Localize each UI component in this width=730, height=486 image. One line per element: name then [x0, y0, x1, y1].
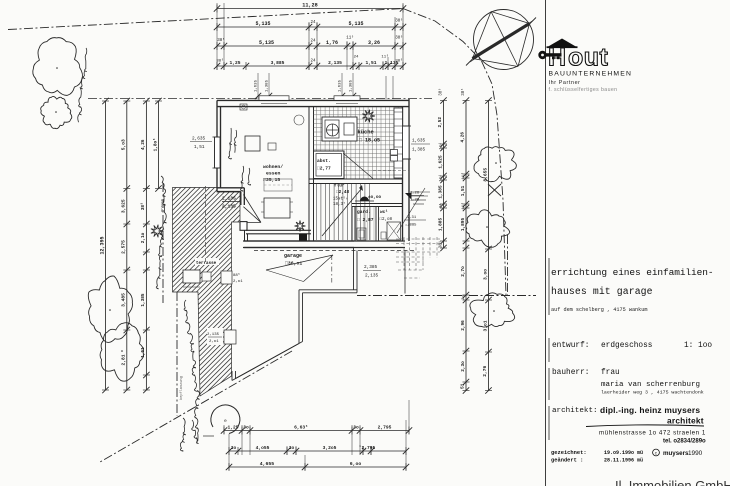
svg-text:□2,77: □2,77	[317, 166, 331, 172]
patio end step	[231, 371, 233, 381]
dimension chain left L1 (12,395)	[105, 101, 107, 390]
living armchair squiggle	[241, 166, 244, 191]
patio south edge (horizontal double)	[299, 289, 357, 291]
svg-text:bauherr:: bauherr:	[552, 369, 589, 377]
north wall window west (roller box)	[259, 96, 289, 101]
svg-text:1,385: 1,385	[438, 185, 443, 199]
dimension chain top row 3 (38 5,135 24 1,76 11 3,26)	[217, 45, 403, 47]
svg-text:gezeichnet:: gezeichnet:	[551, 450, 587, 456]
svg-text:19.o9.199o mü: 19.o9.199o mü	[604, 450, 643, 456]
dimension chain left L2 (5,03 3,625 2,575 ...)	[126, 101, 128, 390]
yard dims 2,385/2,135	[363, 270, 381, 272]
svg-text:1,635: 1,635	[339, 79, 343, 92]
svg-text:5,135: 5,135	[348, 21, 363, 27]
kitchen island counter	[322, 117, 357, 141]
svg-text:□2,48: □2,48	[336, 190, 350, 195]
svg-text:essen: essen	[266, 172, 281, 177]
yard east fence line	[404, 251, 406, 294]
shrub star left of terrace	[151, 225, 164, 238]
east annex dims (4,31/4,885)	[404, 219, 426, 221]
patio diagonal edge (double)	[232, 344, 299, 381]
dimension chain right R2 (4,26 1,51 1,895 2,70 30 2,96 2,30)	[465, 101, 467, 391]
svg-text:2,135: 2,135	[365, 274, 379, 279]
boundary line left vertical (dash-dot)	[162, 183, 164, 303]
door width labels 2,135/2,135	[222, 201, 240, 203]
tree top-left large	[33, 38, 83, 96]
extension lines top block	[216, 3, 218, 70]
svg-text:1,385: 1,385	[141, 293, 146, 307]
bush right middle	[466, 210, 510, 247]
svg-text:architekt:: architekt:	[552, 407, 598, 415]
stair run arrow	[322, 188, 362, 236]
svg-text:6,oo: 6,oo	[350, 461, 362, 467]
svg-text:out: out	[568, 44, 609, 72]
entrance door black triangle	[405, 193, 412, 200]
kitchen floor tile grid	[314, 107, 403, 179]
svg-text:1: 1oo: 1: 1oo	[684, 342, 712, 350]
wc shower box	[387, 222, 401, 240]
svg-text:1,25: 1,25	[229, 60, 240, 66]
boundary vertical dash-dot east of R3	[507, 235, 509, 296]
svg-text:maria van scherrenburg: maria van scherrenburg	[601, 381, 700, 389]
svg-text:28.11.1996 mü: 28.11.1996 mü	[604, 457, 643, 463]
kitchen/flur dividing wall (horizontal)	[309, 178, 403, 180]
southwest wall turn east	[217, 187, 244, 189]
west exterior wall	[216, 100, 218, 191]
svg-text:2,81: 2,81	[121, 354, 127, 365]
svg-text:1,885: 1,885	[438, 218, 443, 232]
svg-text:6,63⁵: 6,63⁵	[294, 425, 308, 431]
entwurf row	[548, 338, 550, 362]
dining table	[264, 198, 290, 218]
svg-text:4,26: 4,26	[461, 132, 466, 143]
svg-text:1,8o⁵: 1,8o⁵	[153, 138, 158, 152]
dimension chain left L3 (4,26 2,10 ...)	[145, 101, 147, 390]
pillar at terrace corner	[240, 222, 247, 231]
dimension chain right R3 (8,655 3,00 3,01 2,76)	[488, 101, 490, 391]
svg-text:12,395: 12,395	[99, 236, 105, 254]
svg-text:ɡard.: ɡard.	[357, 209, 371, 215]
svg-text:terrasse: terrasse	[196, 262, 217, 266]
kitchen stove circle	[327, 124, 339, 136]
compass rose circle	[474, 10, 534, 70]
svg-text:3,625: 3,625	[121, 199, 127, 213]
tree top-left small	[41, 96, 72, 128]
svg-text:1990: 1990	[688, 450, 703, 457]
logo key icon	[538, 51, 546, 59]
entrance level marker half-disc	[360, 197, 369, 202]
svg-text:2,76: 2,76	[482, 365, 488, 376]
hatch divider dashed vertical	[205, 186, 207, 262]
garage north wall	[243, 240, 354, 242]
dimension chain bottom row B (30 4,055 30 3,205 2,795)	[229, 450, 406, 452]
wc west wall	[375, 207, 377, 242]
small window symbol top-left corner	[240, 104, 247, 110]
bush squiggles bottom-left of e-tree	[180, 418, 185, 451]
svg-text:24: 24	[310, 40, 316, 44]
compass star lines	[491, 12, 530, 24]
svg-text:˜2,795: ˜2,795	[359, 445, 376, 451]
svg-text:Ihr Partner: Ihr Partner	[549, 80, 581, 86]
north exterior wall	[217, 99, 409, 101]
surveyor X mark right	[488, 184, 501, 196]
tree left-middle upper	[88, 276, 132, 342]
svg-text:4,o55: 4,o55	[256, 445, 270, 451]
terrasse label	[195, 258, 219, 265]
svg-text:2,o1: 2,o1	[233, 280, 243, 284]
abst door swing diagonal	[343, 153, 373, 179]
svg-text:3,485: 3,485	[121, 293, 127, 307]
abst room walls	[314, 151, 345, 179]
east exterior wall lower	[408, 183, 410, 241]
svg-text:2,635: 2,635	[192, 137, 206, 142]
svg-text:1,635: 1,635	[255, 79, 259, 92]
west wall window (2,635/1,51)	[215, 137, 221, 168]
flur-east diagonal to steps	[397, 188, 425, 233]
logo Hout outlined letters	[548, 44, 609, 72]
svg-text:1,51: 1,51	[461, 185, 466, 196]
svg-text:dipl.-ing. heinz muysers: dipl.-ing. heinz muysers	[600, 405, 700, 415]
svg-text:3o: 3o	[243, 425, 249, 431]
svg-text:garage: garage	[284, 253, 302, 259]
tree bottom-center with e label	[211, 405, 240, 434]
planting strip squiggle along terrace	[156, 176, 166, 289]
svg-text:BAUUNTERNEHMEN: BAUUNTERNEHMEN	[549, 71, 633, 78]
gard room west wall	[351, 207, 353, 242]
boundary line top (dash-dot)	[8, 9, 403, 30]
south exterior wall	[244, 240, 405, 242]
svg-text:1,76: 1,76	[326, 40, 338, 46]
boundary line right curve (dash-dot)	[403, 9, 506, 296]
title text errichtung	[548, 258, 550, 315]
svg-text:1,385: 1,385	[412, 148, 426, 153]
svg-text:3,26: 3,26	[368, 40, 380, 46]
svg-text:2,7o: 2,7o	[461, 266, 466, 277]
svg-text:24: 24	[354, 56, 359, 60]
svg-text:2,3o: 2,3o	[461, 361, 466, 372]
kitchen appliance boxes	[391, 150, 398, 156]
svg-text:Il. Immobilien GmbH: Il. Immobilien GmbH	[615, 478, 730, 486]
svg-text:8,655: 8,655	[482, 168, 488, 182]
svg-text:51: 51	[461, 383, 466, 389]
svg-text:1,625: 1,625	[438, 155, 443, 169]
living room sideboard	[245, 136, 260, 151]
bush right lower	[470, 293, 515, 327]
svg-text:H: H	[548, 44, 567, 72]
terrace furniture table	[183, 270, 200, 283]
svg-text:2,385: 2,385	[364, 265, 378, 270]
svg-text:5,135: 5,135	[255, 21, 270, 27]
terrace door swing wedge	[243, 195, 261, 223]
svg-text:38⁵: 38⁵	[141, 202, 146, 210]
svg-text:24: 24	[310, 21, 316, 25]
svg-text:e: e	[224, 419, 227, 424]
patio west edge (vertical double)	[298, 290, 300, 344]
svg-text:5,135: 5,135	[259, 40, 274, 46]
svg-text:wc¹: wc¹	[380, 210, 388, 215]
entrance outside steps	[411, 191, 430, 193]
svg-text:erdgeschoss: erdgeschoss	[601, 342, 653, 350]
chimney black box on south wall	[299, 234, 307, 241]
bush squiggle right of top-left trees	[78, 48, 87, 122]
svg-text:bepflanzung: bepflanzung	[179, 376, 184, 400]
living sideboard small	[268, 143, 276, 150]
svg-text:3,o1: 3,o1	[482, 320, 488, 331]
SE dashed dimension web	[396, 237, 440, 278]
svg-text:1,51: 1,51	[365, 60, 376, 66]
east annex dims (0,26/1,26)	[409, 195, 424, 197]
central spine wall (vertical)	[308, 107, 310, 242]
terrace glass front of living room	[246, 229, 311, 231]
dimension chain bottom row C (4,655 6,00)	[229, 466, 406, 468]
svg-text:c: c	[655, 452, 658, 457]
dimension chain top row 2 (5,135 24 5,135)	[217, 26, 403, 28]
svg-text:1,385: 1,385	[266, 79, 270, 92]
svg-text:5,o3: 5,o3	[121, 139, 127, 150]
svg-text:3o: 3o	[353, 425, 359, 431]
svg-text:hauses mit garage: hauses mit garage	[551, 286, 653, 297]
svg-text:3,oo: 3,oo	[482, 269, 488, 280]
svg-text:4,655: 4,655	[260, 461, 275, 467]
svg-text:3,885: 3,885	[271, 60, 285, 66]
svg-text:11,28: 11,28	[302, 3, 318, 9]
svg-text:4,26: 4,26	[141, 139, 146, 150]
east wall window (1,635/1,385)	[403, 126, 410, 159]
wc sink	[381, 232, 386, 239]
svg-text:tel. o2834/289o: tel. o2834/289o	[663, 439, 706, 445]
compass north needle thick	[473, 24, 530, 59]
svg-text:θ,26: θ,26	[410, 191, 420, 196]
svg-text:2,795: 2,795	[378, 425, 392, 431]
svg-text:muysers: muysers	[663, 450, 689, 457]
dimension chain top row 1 (11,28)	[217, 8, 403, 10]
svg-text:mühlenstrasse 1o 472 straele: mühlenstrasse 1o 472 straelen 1	[599, 430, 706, 437]
gard/wc north wall	[352, 203, 403, 205]
svg-text:1,26: 1,26	[410, 199, 420, 203]
svg-text:ₐ,885: ₐ,885	[405, 224, 417, 228]
compass end ticks	[466, 58, 474, 66]
architekt row	[548, 406, 550, 440]
svg-text:ₐ,31: ₐ,31	[407, 216, 417, 220]
svg-text:geändert :: geändert :	[551, 457, 583, 463]
svg-text:2,1o: 2,1o	[141, 232, 146, 243]
pantry dashed line	[373, 170, 409, 172]
svg-text:flur: flur	[334, 184, 345, 189]
pillar to south wall connection	[244, 230, 246, 241]
architekt underline	[586, 425, 704, 427]
door swing arc kitchen	[294, 115, 304, 125]
extension lines bottom block	[223, 425, 225, 434]
svg-text:2,96: 2,96	[461, 320, 466, 331]
svg-text:f. schlüsselfertiges bauen: f. schlüsselfertiges bauen	[549, 87, 618, 93]
svg-text:1,635: 1,635	[412, 139, 426, 144]
terrace steps lower with labels 2,135/2,01	[224, 330, 236, 344]
svg-text:24: 24	[310, 60, 316, 64]
living room plant squiggle west	[228, 128, 231, 159]
tree left-middle lower	[100, 323, 143, 381]
kitchen plant (spiky)	[362, 110, 375, 123]
west window dim labels 2,635/1,51	[190, 141, 212, 143]
kitchen east counter band	[394, 108, 403, 178]
svg-text:frau: frau	[601, 369, 620, 377]
svg-text:3o: 3o	[231, 445, 237, 451]
garage door swing lines	[266, 255, 333, 270]
svg-text:2,135: 2,135	[328, 60, 342, 66]
east exterior wall upper	[408, 99, 410, 183]
svg-text:3o: 3o	[462, 295, 466, 300]
svg-text:entwurf:: entwurf:	[552, 342, 589, 350]
svg-text:1,385: 1,385	[350, 79, 354, 92]
logo house roof	[547, 39, 578, 48]
dimension chain top row 4 (1,25 3,885 24 2,135 24 1,51 11 1,135)	[217, 65, 403, 67]
boundary line bottom-left diagonal (dash-dot)	[100, 351, 292, 462]
copyright muysers 1990	[653, 449, 660, 456]
north wall window east (roller box)	[334, 96, 360, 101]
svg-text:wohnen/: wohnen/	[263, 164, 283, 170]
gard fixtures	[357, 228, 366, 240]
boundary line horizontal south of garage (dash-dot)	[357, 295, 536, 297]
garage roof overhang dashed	[254, 250, 416, 252]
east window dim labels 1,635/1,385	[411, 143, 430, 145]
svg-text:1,895: 1,895	[461, 218, 466, 232]
window axis labels above north wall (1,635/1,385)	[257, 73, 259, 99]
svg-text:1,51: 1,51	[194, 145, 205, 150]
svg-text:3o: 3o	[289, 445, 295, 451]
southwest wall going south	[243, 188, 245, 205]
svg-text:□ 2,87: □ 2,87	[357, 217, 374, 223]
tree right upper	[474, 147, 516, 182]
svg-text:errichtung eines einfamilien-: errichtung eines einfamilien-	[551, 267, 713, 278]
svg-text:abst.: abst.	[317, 158, 331, 164]
skylight dashed rect above dining	[264, 179, 292, 191]
svg-text:grenze: grenze	[160, 199, 165, 212]
svg-text:24: 24	[439, 203, 443, 208]
boundary line left lower vertical (dash-dot)	[176, 292, 178, 416]
svg-text:2,575: 2,575	[121, 240, 127, 254]
datum line horizontal at house top (dash-dot)	[88, 98, 432, 100]
dimension chain bottom row A (1,25 30 6,635 30 2,795)	[224, 430, 409, 432]
svg-text:auf dem schelberg , 4175 wanku: auf dem schelberg , 4175 wankum	[551, 307, 648, 313]
patio east wall (vertical double)	[353, 248, 355, 290]
svg-text:□2,o8: □2,o8	[380, 217, 393, 222]
svg-text:□ 18,o5: □ 18,o5	[359, 138, 380, 144]
svg-text:2,135: 2,135	[207, 333, 220, 337]
svg-text:±o,oo: ±o,oo	[368, 195, 382, 200]
dimension chain left L4 (1,88)	[158, 101, 160, 189]
bauherr row	[548, 368, 550, 400]
terrace steps upper with labels 88/2,01	[221, 271, 232, 284]
svg-text:laerheider weg 3 , 4175 wachte: laerheider weg 3 , 4175 wachtendonk	[601, 390, 704, 396]
svg-text:2,52: 2,52	[438, 117, 443, 128]
svg-text:3,2o5: 3,2o5	[323, 445, 337, 451]
svg-text:□35,15: □35,15	[263, 177, 280, 183]
svg-text:2,o1: 2,o1	[209, 340, 219, 344]
stair treads	[317, 184, 370, 240]
living plant star south	[295, 221, 306, 232]
title block border vertical line	[545, 0, 547, 486]
svg-text:architekt: architekt	[667, 416, 704, 426]
svg-text:küche: küche	[358, 130, 374, 136]
dimension chain right R1 (2,52 1,625 1,385 1,885)	[443, 101, 445, 249]
